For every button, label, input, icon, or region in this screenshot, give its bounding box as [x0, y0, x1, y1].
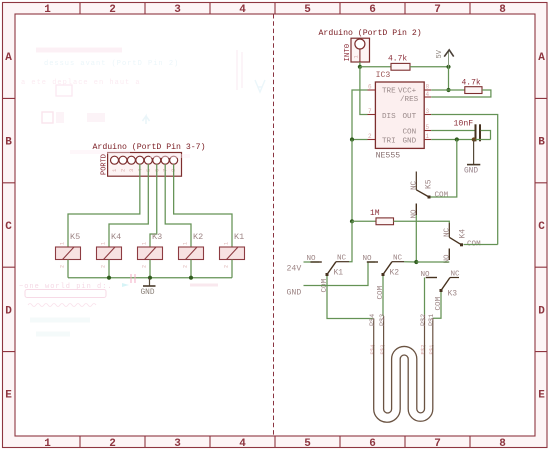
ground symbol GND left: [141, 278, 156, 297]
svg-text:K5: K5: [425, 179, 434, 189]
svg-text:1: 1: [224, 242, 230, 245]
IC3 pin numbers: [368, 84, 430, 141]
K1 moving contact: [327, 262, 336, 275]
wire INT0 to node: [359, 62, 361, 67]
svg-text:NO: NO: [307, 255, 317, 263]
wire 5V node down to VCC node: [448, 67, 450, 90]
svg-text:NC: NC: [411, 180, 419, 190]
svg-text:TRI: TRI: [382, 137, 396, 145]
svg-text:CON: CON: [403, 129, 417, 137]
K2 NO arrow: [367, 261, 378, 263]
svg-text:B: B: [538, 137, 545, 149]
svg-text:P$3: P$3: [379, 314, 387, 326]
resistor R3 4.7k: [391, 63, 410, 70]
fold dashed line: [273, 14, 275, 436]
svg-text:P$2: P$2: [420, 314, 428, 326]
wire K5 COM to GND net: [431, 140, 457, 198]
svg-text:8: 8: [426, 84, 430, 91]
svg-text:1: 1: [183, 242, 189, 245]
K3 NO arrow stub: [426, 277, 437, 279]
relay coil K2: [179, 232, 204, 268]
svg-text:7: 7: [434, 438, 441, 450]
svg-text:DIS: DIS: [382, 113, 396, 121]
K5 NC stub: [415, 172, 417, 190]
svg-text:5: 5: [304, 438, 311, 450]
svg-text:COM: COM: [435, 192, 449, 200]
connector INT0 pin stub: [359, 49, 361, 62]
svg-text:P$3: P$3: [379, 345, 386, 355]
wire TRI pin2: [352, 139, 368, 141]
wire VCC node to pin8: [431, 89, 448, 91]
wire chain node to K4 NO: [416, 261, 449, 263]
svg-text:2: 2: [109, 438, 116, 450]
frame top column dividers: [80, 3, 470, 15]
K5 NO arrow stub: [415, 204, 417, 216]
svg-text:10nF: 10nF: [454, 120, 474, 129]
wire K3 NO down to heater P$2: [424, 278, 426, 316]
heater terminal P$4: [373, 319, 375, 347]
svg-text:2: 2: [224, 265, 230, 268]
svg-text:C: C: [5, 221, 12, 233]
svg-text:VCC+: VCC+: [398, 88, 417, 96]
svg-text:3: 3: [174, 438, 181, 450]
svg-text:Arduino (PortD Pin 2): Arduino (PortD Pin 2): [319, 28, 422, 38]
wire K2 COM down to heater P$3: [382, 276, 384, 316]
svg-text:NC: NC: [393, 255, 403, 263]
svg-text:K1: K1: [334, 269, 344, 278]
svg-text:NE555: NE555: [376, 152, 401, 161]
svg-text:8: 8: [499, 438, 506, 450]
heater pad labels: [369, 314, 436, 326]
switch contact K4: [444, 223, 482, 264]
K2 NC stub: [392, 261, 404, 263]
jpeg ghost artifacts top-left quadrant: [21, 50, 265, 156]
svg-text:6: 6: [368, 84, 372, 91]
wire K3 COM to heater P$1: [433, 292, 441, 318]
relay coil K3: [138, 232, 163, 268]
wire pin7 to K2 coil: [165, 164, 191, 247]
IC3 pin names: [382, 88, 419, 146]
K4 moving contact: [449, 237, 461, 245]
svg-text:1: 1: [44, 438, 51, 450]
svg-text:3: 3: [174, 4, 181, 16]
svg-text:5: 5: [426, 124, 430, 131]
svg-text:4: 4: [239, 438, 246, 450]
junction VCC node: [446, 88, 450, 92]
wire CON pin5 to C1: [431, 130, 474, 132]
connector INT0 pin circle: [355, 39, 365, 49]
frame row letters left: [5, 52, 12, 402]
svg-text:a ete deplace en haut a: a ete deplace en haut a: [21, 79, 141, 87]
frame row letters right: [538, 52, 545, 402]
svg-text:B: B: [5, 137, 12, 149]
wire TRE bypass to TRI: [352, 90, 368, 140]
svg-text:1: 1: [44, 4, 51, 16]
wire K4 COM to OUT line: [464, 244, 498, 246]
heater terminal P$2: [424, 315, 426, 346]
junction INT0 node: [358, 65, 362, 69]
svg-text:NC: NC: [444, 227, 452, 237]
svg-text:1: 1: [101, 242, 107, 245]
svg-text:1M: 1M: [370, 209, 380, 218]
svg-text:4: 4: [239, 4, 246, 16]
svg-text:TRE: TRE: [382, 88, 396, 96]
svg-text:K2: K2: [193, 232, 203, 242]
svg-text:P$1: P$1: [428, 344, 435, 355]
junction K2 bottom: [189, 276, 193, 280]
K4 NO arrow stub: [448, 249, 450, 261]
wire 1M node to R5: [352, 220, 376, 222]
wire C1 right plate loop to GND net: [481, 131, 491, 140]
svg-text:7: 7: [368, 108, 372, 115]
wire GND pin1 net: [431, 139, 490, 141]
svg-text:NC: NC: [451, 271, 461, 279]
svg-text:K5: K5: [70, 232, 80, 242]
svg-text:NO: NO: [363, 255, 373, 263]
svg-text:NC: NC: [337, 255, 347, 263]
heater terminal P$1: [432, 318, 434, 346]
svg-text:2: 2: [142, 265, 148, 268]
switch contact K2: [363, 255, 405, 300]
K4 COM pivot: [460, 243, 463, 246]
junction GND net / K5 drop: [455, 137, 459, 141]
svg-text:P$2: P$2: [420, 345, 427, 355]
svg-text:dessus avant (PortD Pin 2): dessus avant (PortD Pin 2): [44, 60, 179, 68]
svg-text:OUT: OUT: [403, 113, 417, 121]
relay coil K5: [56, 232, 81, 268]
wire GND to K2 NO: [304, 262, 376, 286]
switch contact K1: [307, 255, 350, 293]
resistor R4 4.7k: [465, 87, 482, 94]
relay coil K4: [97, 232, 122, 268]
svg-text:GND: GND: [287, 289, 302, 298]
heater terminal P$3: [383, 316, 385, 346]
K1 NO arrow: [311, 261, 322, 263]
svg-text:6: 6: [369, 438, 376, 450]
wire pin5 to K4 coil: [109, 164, 148, 247]
K2 moving contact: [383, 262, 392, 275]
junction 5V node: [446, 65, 450, 69]
junction TRI node: [350, 137, 354, 141]
svg-text:D: D: [538, 306, 545, 318]
wire R5 to K4 NC: [394, 221, 450, 223]
svg-text:GND: GND: [403, 137, 417, 145]
svg-text:2: 2: [60, 265, 66, 268]
svg-text:C: C: [538, 221, 545, 233]
svg-text:A: A: [538, 52, 545, 64]
junction K3 bottom: [148, 276, 152, 280]
svg-text:NO: NO: [421, 271, 431, 279]
svg-text:5: 5: [304, 4, 311, 16]
switch contact K5: [411, 172, 449, 219]
svg-text:5V: 5V: [436, 49, 444, 58]
svg-text:P$4: P$4: [369, 344, 376, 355]
K1 COM pivot: [326, 273, 329, 276]
svg-text:E: E: [538, 390, 545, 402]
supply symbol 5V arrow: [436, 49, 454, 67]
K3 moving contact: [441, 278, 450, 291]
frame column numbers top: [44, 4, 506, 16]
ground symbol GND under C1: [464, 140, 480, 176]
svg-text:K3: K3: [152, 232, 162, 242]
heater serpentine outer boundary: [374, 345, 433, 422]
svg-text:K2: K2: [390, 269, 400, 278]
wire VCC node to R4: [449, 89, 465, 91]
wire INT0 node down to DIS pin7: [360, 67, 368, 115]
relay coil K1: [220, 232, 245, 268]
svg-text:K4: K4: [459, 229, 468, 239]
K3 NC stub: [450, 277, 459, 279]
connector INT0 box: [351, 38, 370, 62]
frame column numbers bottom: [44, 438, 506, 450]
switch contact K3: [421, 271, 461, 311]
svg-text:1: 1: [142, 242, 148, 245]
svg-text:2: 2: [120, 169, 127, 172]
frame bottom column dividers: [80, 436, 470, 448]
wire K1 COM to heater P$4: [327, 276, 374, 319]
junction chain node: [414, 260, 418, 264]
IC3 pin stubs: [368, 90, 432, 140]
svg-text:PORTD: PORTD: [101, 154, 109, 175]
wire R4 to pin4 /RES: [431, 90, 491, 97]
wire node to R3: [360, 66, 391, 68]
junction K4 bottom: [107, 276, 111, 280]
svg-text:4: 4: [426, 91, 430, 98]
svg-text:1: 1: [426, 133, 430, 140]
svg-text:3: 3: [128, 169, 135, 172]
K5 COM pivot: [428, 196, 431, 199]
wire 24V to K1 NO: [304, 261, 320, 263]
svg-text:2: 2: [183, 265, 189, 268]
wire pin4 to K5 coil: [68, 164, 140, 247]
svg-text:7: 7: [434, 4, 441, 16]
connector pin numbers 1-8: [111, 168, 177, 172]
svg-text:1: 1: [60, 242, 66, 245]
svg-text:A: A: [5, 52, 12, 64]
junction 1M node: [350, 219, 354, 223]
frame left row dividers: [3, 98, 16, 351]
connector pin circles 1-8: [111, 156, 178, 164]
K4 NC stub: [448, 223, 450, 237]
wire R3 to 5V node: [410, 66, 449, 68]
heater tiny pin numbers: [369, 344, 435, 355]
svg-text:E: E: [5, 390, 12, 402]
wire K2 NC to chain node: [404, 261, 416, 263]
heater serpentine inner boundary: [384, 345, 425, 413]
svg-text:8: 8: [499, 4, 506, 16]
K3 COM pivot: [440, 289, 443, 292]
svg-text:D: D: [5, 306, 12, 318]
heater element R1/R2 terminals: [374, 315, 433, 346]
svg-text:4.7k: 4.7k: [462, 79, 481, 88]
watermark ghost text: [19, 274, 218, 334]
resistor R5 1M: [376, 218, 394, 225]
wire 1M node down to K1 NC: [349, 221, 352, 261]
wire TRI node down to 1M node: [351, 140, 353, 222]
svg-text:K4: K4: [111, 232, 121, 242]
wire K5 NO down to NC-chain node: [415, 215, 417, 262]
wire pin6 to K3 coil: [150, 164, 157, 247]
svg-text:2: 2: [109, 4, 116, 16]
svg-text:2: 2: [101, 265, 107, 268]
wire pin8 to K1 coil: [174, 164, 232, 247]
svg-text:24V: 24V: [287, 265, 302, 274]
svg-text:P$4: P$4: [369, 314, 377, 326]
op-amp IC3 NE555 box: [375, 82, 424, 148]
K2 COM pivot: [382, 273, 385, 276]
wire OUT pin3 right and down: [431, 115, 498, 245]
svg-text:2: 2: [368, 133, 372, 140]
svg-text:K1: K1: [234, 232, 244, 242]
svg-text:K3: K3: [448, 290, 458, 299]
K1 NC stub: [336, 261, 349, 263]
junction GND net / ground symbol: [472, 137, 476, 141]
svg-text:GND: GND: [141, 289, 155, 297]
svg-text:6: 6: [369, 4, 376, 16]
svg-text:GND: GND: [464, 168, 478, 176]
connector JP1 PORTD box: [108, 153, 182, 177]
svg-text:3: 3: [426, 108, 430, 115]
svg-text:P$1: P$1: [428, 314, 436, 326]
svg-text:INT0: INT0: [344, 44, 352, 62]
svg-text:NO: NO: [411, 209, 419, 219]
svg-text:IC3: IC3: [376, 71, 391, 80]
K5 moving contact: [416, 190, 429, 197]
frame right row dividers: [535, 98, 547, 351]
svg-text:/RES: /RES: [400, 96, 419, 104]
capacitor C1 10nF plates: [476, 124, 481, 141]
svg-text:4.7k: 4.7k: [388, 55, 407, 64]
wire relay bottoms common bus: [68, 260, 232, 278]
